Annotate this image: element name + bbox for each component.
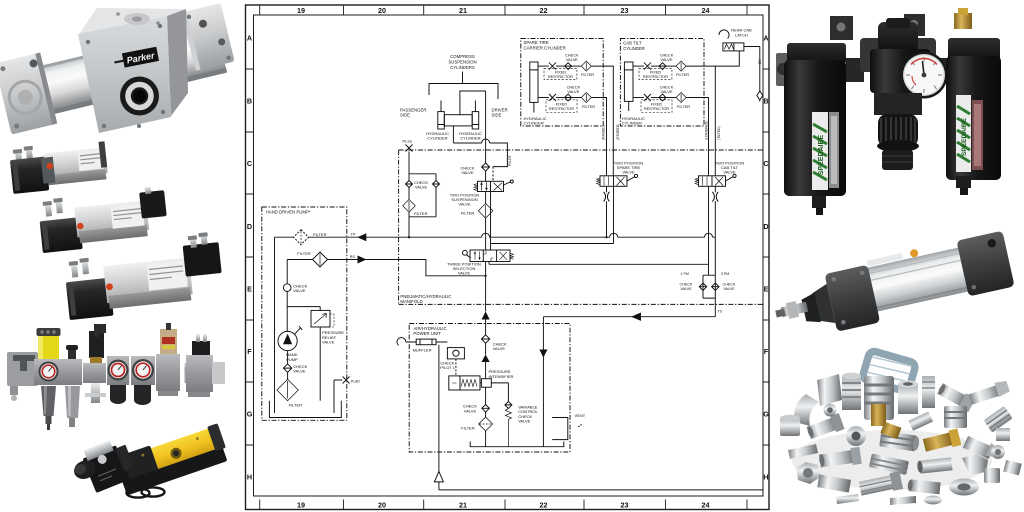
svg-text:COMPRESS: COMPRESS (450, 54, 475, 59)
wire: below spare valve (606, 186, 608, 237)
label TWO POSITION SUSPENSION VALVE (450, 193, 480, 207)
hand pump P1 (278, 326, 302, 350)
wire (556, 97, 565, 99)
svg-text:1 PM: 1 PM (681, 272, 689, 276)
svg-text:19: 19 (297, 501, 305, 510)
svg-text:CHECK: CHECK (680, 283, 693, 287)
svg-text:VALVE: VALVE (464, 408, 477, 413)
svg-text:(RAISED): (RAISED) (602, 125, 606, 140)
supply riser with down arrow (539, 345, 547, 447)
label AIR/HYDRAULIC POWER UNIT (413, 326, 446, 336)
vent port (552, 418, 581, 440)
label FIXED RESTRICTOR (FR2) (549, 102, 574, 112)
wire (485, 320, 487, 335)
svg-text:SPEEDAIRE: SPEEDAIRE (961, 117, 968, 156)
svg-text:VALVE: VALVE (723, 287, 735, 291)
svg-text:POWER UNIT: POWER UNIT (413, 331, 441, 336)
svg-text:24: 24 (702, 501, 710, 510)
svg-text:(LOWERED): (LOWERED) (704, 121, 708, 140)
svg-text:PL2a: PL2a (403, 138, 413, 143)
svg-text:FILTER: FILTER (289, 403, 303, 408)
check valve CV6 (659, 94, 666, 101)
wire: F8 return to tank (275, 237, 294, 413)
label TWO POSITION SPARE TIRE VALVE (614, 161, 644, 175)
filter F2 (403, 188, 416, 217)
check valve CV2b (406, 181, 413, 188)
label PASSENGER SIDE (400, 108, 426, 118)
label FILTER (F8) (313, 232, 327, 237)
plug PL2a (403, 138, 413, 151)
rotated wire label (TILTED) (717, 126, 721, 140)
photo: yellow lockout valve (68, 422, 230, 498)
svg-text:RESTRICTOR: RESTRICTOR (644, 106, 669, 111)
label FILTER (F10) (289, 403, 303, 408)
junction (485, 275, 487, 277)
label CHECK PILOT (440, 360, 456, 370)
hydraulic cylinder CYL2 (driver) (472, 101, 479, 130)
wire: main riser from cylinders (485, 91, 487, 163)
label FIXED RESTRICTOR (FR3) (643, 70, 668, 80)
svg-text:PILOT L: PILOT L (440, 365, 456, 370)
label FIXED RESTRICTOR (FR1) (548, 70, 573, 80)
svg-text:RESTRICTOR: RESTRICTOR (548, 74, 573, 79)
cab tilt cylinder CYL4 (624, 62, 633, 111)
rotated wire label (STORED) (616, 124, 620, 140)
wire: spare bottom branch to drop (591, 98, 606, 176)
pressure intensifier coupler (481, 379, 491, 388)
svg-text:23: 23 (621, 6, 629, 15)
filter F10 (277, 372, 298, 400)
label HYDRAULIC CYLINDER (cab) (622, 116, 645, 126)
fixed restrictor FR1 (544, 63, 577, 80)
svg-text:SUSPENSION: SUSPENSION (448, 60, 476, 65)
fixed restrictor FR3 (639, 63, 672, 80)
svg-text:FILTER: FILTER (297, 251, 311, 256)
quick coupling QC1 (604, 192, 610, 202)
svg-text:CHECK: CHECK (723, 283, 736, 287)
wire: cab valve drop from top branch (714, 66, 716, 176)
svg-text:VALVE: VALVE (567, 89, 579, 94)
label FIXED RESTRICTOR (FR4) (644, 102, 669, 112)
check valve CV3 (565, 63, 572, 70)
photo: solenoid valve 1 (9, 138, 109, 194)
fixed restrictor FR2 (546, 94, 577, 113)
label HAND DRIVEN PUMP (266, 210, 311, 215)
photo: hose fittings pile (780, 350, 1022, 505)
svg-text:VALVE: VALVE (293, 288, 306, 293)
wire: selector valve bottom to bridge (489, 262, 709, 276)
variable control check valve (491, 383, 512, 447)
wire: cab top branch (633, 65, 644, 67)
svg-text:VALVE: VALVE (322, 340, 335, 345)
enclosure: hand driven pump (dash-dot) (262, 207, 347, 420)
svg-text:C: C (763, 159, 768, 168)
label FILTER (F6) (677, 104, 690, 109)
photo: FRL service assembly (7, 323, 225, 430)
svg-text:MANIFOLD: MANIFOLD (400, 299, 422, 304)
label FILTER (F1) (461, 211, 475, 216)
flow arrow (left) on TP header (357, 233, 366, 241)
label DRIVER SIDE (492, 108, 508, 118)
svg-text:VALVE: VALVE (680, 287, 692, 291)
svg-text:G: G (247, 410, 253, 419)
filter F4 (572, 93, 592, 103)
svg-text:G: G (763, 410, 769, 419)
fixed restrictor FR4 (641, 94, 672, 113)
node 3 PM (721, 272, 729, 276)
filter F3 (572, 61, 592, 71)
svg-text:FILTER: FILTER (313, 232, 327, 237)
wire: suspension line to pilot (with jump over main line) (453, 139, 507, 167)
rear cab latch cylinder (719, 28, 752, 51)
wire: spare bottom branch (538, 97, 549, 99)
wire: spare top branch to drop (591, 66, 613, 176)
svg-text:SIDE: SIDE (400, 113, 410, 118)
svg-text:VALVE: VALVE (461, 170, 474, 175)
rotated wire label (LOWERED) (704, 121, 708, 140)
svg-text:E: E (247, 285, 252, 294)
svg-text:(STORED): (STORED) (616, 124, 620, 140)
wire: suspension valve port B down to selector valve (490, 192, 492, 251)
svg-text:RS: RS (350, 255, 356, 259)
svg-text:CAB TILT: CAB TILT (623, 41, 642, 46)
wire: cab top branch to latch riser (686, 51, 739, 66)
svg-text:FILTER: FILTER (582, 104, 595, 109)
svg-text:RESTRICTOR: RESTRICTOR (549, 106, 574, 111)
wire (651, 65, 659, 67)
enclosure: pneumatic/hydraulic manifold (dash-dot) (399, 150, 763, 304)
pilot line (dashed) to suspension valve (492, 167, 494, 181)
wire: PL2a drop (408, 152, 410, 181)
photo: left product column (0, 0, 245, 512)
svg-text:VALVE: VALVE (723, 170, 736, 175)
label MUFFLER (413, 347, 432, 352)
two position suspension valve V1 (474, 180, 513, 192)
label CHECK VALVE (CV11) (293, 364, 307, 374)
wire: cab bottom branch to drop (686, 98, 708, 176)
wire: selector valve to power unit (485, 262, 487, 312)
svg-text:A: A (763, 34, 768, 43)
svg-text:VALVE: VALVE (293, 369, 306, 374)
wire (651, 97, 659, 99)
check valve bridge CV7 (699, 275, 719, 298)
label FILTER (F9) (297, 251, 311, 256)
label COMPRESS SUSPENSION CYLINDERS (448, 54, 476, 70)
check pilot valve (447, 348, 464, 359)
grid tick marks bottom (260, 500, 747, 510)
enclosure: spare tire carrier cylinder (dash-dot) (521, 39, 603, 127)
wire: RS header to selector valve drain (347, 260, 486, 276)
label HAND PUMP (286, 352, 298, 362)
svg-text:CYLINDER: CYLINDER (622, 121, 642, 126)
filter F6 (666, 93, 686, 103)
svg-text:PL8D: PL8D (351, 379, 360, 383)
node RS (350, 255, 356, 259)
flow arrow (right) on RS header (358, 256, 367, 264)
filter F7 (479, 412, 493, 447)
wire: F9 to RS (328, 259, 347, 261)
wire: latch to border connector (744, 47, 760, 92)
filter F1 (478, 204, 493, 219)
check valve CV1 (482, 163, 490, 171)
wire (485, 343, 487, 354)
grid tick marks top (260, 5, 747, 15)
wire: cross link to spare tire valve line (491, 243, 614, 245)
wire: relief branch (287, 307, 320, 311)
label (vertical) near border (758, 60, 762, 64)
node TS (717, 309, 722, 313)
photo: solenoid valve 3 (62, 231, 225, 320)
svg-text:FILTER: FILTER (461, 426, 475, 431)
svg-text:F: F (764, 347, 769, 356)
svg-text:HAND DRIVEN PUMP*: HAND DRIVEN PUMP* (266, 210, 311, 215)
photo: solenoid valve 2 (37, 185, 169, 253)
wire: spare top branch (538, 65, 549, 67)
hydraulic cylinder CYL1 (passenger) (438, 101, 445, 130)
label HYDRAULIC CYLINDER (spare) (524, 116, 547, 126)
photo: Speedaire FRL combo (776, 8, 1001, 215)
wire: CV1 to suspension valve (485, 171, 487, 181)
label CHECK VALVE (CV5) (660, 53, 674, 63)
check valve CV2 (bypass) (433, 174, 440, 188)
label PRESSURE RELIEF VALVE (322, 330, 344, 344)
label CHECK VALVE (CV2) (414, 180, 428, 190)
label CHECK VALVE (CV10) (293, 283, 307, 293)
svg-text:B: B (247, 97, 252, 106)
svg-text:FILTER: FILTER (677, 104, 690, 109)
wire: V1 to filter F1 (485, 192, 487, 204)
svg-text:21: 21 (459, 501, 467, 510)
svg-text:FILTER: FILTER (461, 211, 475, 216)
svg-text:23: 23 (621, 501, 629, 510)
enclosure: cab tilt cylinder (dash-dot) (620, 39, 704, 127)
svg-text:20: 20 (378, 501, 386, 510)
label THREE POSITION SELECTION VALVE (447, 261, 481, 275)
reservoir tank (269, 401, 341, 418)
drain line with breather (434, 345, 763, 490)
crossover bar between cylinders (444, 115, 472, 126)
label FILTER (F2) (414, 211, 428, 216)
check valve CV10 (ball) (283, 284, 291, 292)
svg-text:3 PM: 3 PM (721, 272, 729, 276)
svg-text:F: F (247, 347, 252, 356)
svg-text:VALVE: VALVE (415, 185, 428, 190)
svg-text:E: E (764, 285, 769, 294)
label VARIABLE CONTROL CHECK VALVE (518, 404, 538, 423)
label CHECK VALVE (CV3) (565, 53, 579, 63)
svg-text:D8: D8 (758, 60, 762, 64)
label CHECK VALVE (CV4) (567, 85, 581, 95)
pilot line (dashed) (455, 359, 457, 376)
svg-text:H: H (763, 473, 768, 482)
wire: relief drain to tank (319, 327, 321, 401)
flow arrow (up) into selector valve (482, 312, 490, 320)
wire: pump discharge (286, 291, 288, 331)
muffler M1 (406, 339, 448, 345)
svg-text:VALVE: VALVE (458, 202, 471, 207)
filter F5 (666, 61, 686, 71)
wire: below cab valve left port (708, 186, 710, 264)
photo: right product column (770, 0, 1024, 512)
wire (485, 362, 487, 405)
muffler inlet pigtail (397, 338, 406, 346)
svg-text:A: A (247, 34, 252, 43)
wire (287, 351, 289, 364)
label FILTER (F5) (676, 72, 689, 77)
quick coupling QC2 (712, 186, 718, 237)
grid tick marks right (763, 69, 769, 445)
enclosure: air/hydraulic power unit (dash-dot) (409, 324, 570, 453)
label FILTER (F4) (582, 104, 595, 109)
wire: parallel pair bottom link and drop to TP header (409, 188, 436, 238)
svg-text:VALVE: VALVE (493, 346, 506, 351)
svg-text:FILTER: FILTER (581, 72, 594, 77)
svg-text:CYLINDERS: CYLINDERS (450, 65, 475, 70)
svg-text:D: D (763, 222, 768, 231)
wire: below spare valve right port (613, 186, 615, 243)
svg-text:INTENSIFIER: INTENSIFIER (489, 374, 514, 379)
photo: pneumatic cylinder (769, 230, 1016, 344)
svg-text:24: 24 (702, 6, 710, 15)
svg-text:21: 21 (459, 6, 467, 15)
svg-text:LATCH: LATCH (735, 32, 748, 37)
svg-text:(TILTED): (TILTED) (717, 126, 721, 140)
junction (408, 236, 410, 238)
node TP (351, 233, 356, 237)
flow arrow (up) (482, 355, 490, 363)
two position spare tire valve V2 (597, 174, 638, 186)
label CAB TILT CYLINDER (623, 41, 645, 52)
svg-text:RESTRICTOR: RESTRICTOR (643, 74, 668, 79)
svg-text:SPARE TIRE: SPARE TIRE (524, 40, 549, 45)
wire: bracket feed to cylinder pair (460, 91, 486, 115)
label CHECK VALVE (CV9) (463, 404, 477, 414)
svg-text:CYLINDER: CYLINDER (460, 136, 480, 141)
svg-text:D: D (247, 222, 252, 231)
svg-text:19: 19 (297, 6, 305, 15)
svg-text:20: 20 (378, 6, 386, 15)
wire: cab bottom branch (633, 97, 644, 99)
check valve CV4 (565, 94, 572, 101)
grouping bracket for suspension cylinders (429, 72, 498, 100)
svg-text:VALVE: VALVE (566, 57, 578, 62)
grid tick marks left (246, 69, 254, 445)
label VENT (575, 413, 586, 418)
svg-text:CARRIER CYLINDER: CARRIER CYLINDER (524, 46, 566, 51)
label HYDRAULIC CYLINDER (right) (459, 131, 482, 141)
wire: bar port down (452, 126, 454, 143)
wire: F8 to TP (309, 236, 347, 238)
check valve CV9 (482, 405, 490, 413)
border frame outer (246, 5, 770, 510)
wire: bridge to TS header (714, 298, 716, 317)
label PRESSURE INTENSIFIER (489, 369, 514, 379)
svg-text:22: 22 (540, 501, 548, 510)
label HYDRAULIC CYLINDER (left) (426, 131, 449, 141)
flow arrow (left) on TS header (631, 313, 641, 321)
label FILTER (F7) (461, 426, 475, 431)
svg-text:VALVE: VALVE (661, 89, 673, 94)
three position selection valve V4 (463, 250, 514, 262)
label CHECK VALVE (bridge left) (680, 283, 693, 292)
svg-text:SPEEDAIRE: SPEEDAIRE (818, 134, 825, 175)
border frame inner drawing area (254, 15, 764, 496)
hand pump filter F8 (dashed) (294, 230, 309, 245)
wire (556, 65, 565, 67)
svg-text:MUFFLER: MUFFLER (413, 347, 432, 352)
svg-text:22: 22 (540, 6, 548, 15)
label CHECK VALVE (bridge right) (723, 283, 736, 292)
svg-text:SIDE: SIDE (492, 113, 502, 118)
label SPARE TIRE CARRIER CYLINDER (524, 40, 566, 51)
svg-text:H: H (247, 473, 252, 482)
svg-text:VALVE: VALVE (661, 57, 673, 62)
svg-text:FILTER: FILTER (676, 72, 689, 77)
wire: TS header to power unit (543, 317, 715, 345)
svg-text:VENT: VENT (575, 413, 586, 418)
svg-text:TS: TS (717, 309, 722, 313)
svg-text:FILTER: FILTER (414, 211, 428, 216)
check valve CV8 (481, 335, 489, 343)
svg-text:C: C (247, 159, 252, 168)
label PILOT (rotated) (508, 154, 512, 166)
pressure relief valve RV1 (311, 310, 334, 327)
junction (605, 236, 607, 238)
check valve CV11 (283, 364, 291, 372)
svg-text:VALVE: VALVE (458, 270, 471, 275)
photo: Parker rotary actuator (0, 3, 239, 134)
node 1 PM (681, 272, 689, 276)
label FILTER (F3) (581, 72, 594, 77)
rotated wire label (RAISE) (602, 125, 606, 140)
wire: parallel check/filter top link (409, 173, 436, 175)
label CHECK VALVE (CV1) (460, 166, 474, 176)
hand pump filter F9 (313, 252, 328, 267)
wire: F1 down across TP header to selector valve (485, 218, 487, 250)
connector arrow at border (row B) (757, 91, 763, 102)
plug PL8D (334, 377, 360, 414)
wire: TP header (with jump-overs) (347, 233, 716, 275)
label CHECK VALVE (CV8) (493, 341, 507, 351)
wire: F9 to pump discharge (287, 260, 312, 284)
air motor / pump (449, 376, 482, 390)
label PNEUMATIC/HYDRAULIC MANIFOLD (400, 294, 451, 304)
label TWO POSITION CAB TILT VALVE (715, 161, 745, 175)
check valve CV5 (659, 63, 666, 70)
svg-text:TP: TP (351, 233, 356, 237)
label CHECK VALVE (CV6) (660, 85, 674, 95)
svg-text:B: B (763, 97, 768, 106)
two position cab tilt valve V3 (695, 174, 736, 186)
svg-text:VALVE: VALVE (518, 419, 531, 424)
svg-text:CYLINDER: CYLINDER (524, 121, 544, 126)
svg-text:VALVE: VALVE (622, 170, 635, 175)
svg-text:CYLINDER: CYLINDER (427, 136, 447, 141)
spare tire cylinder CYL3 (530, 62, 538, 113)
reservoir collector rail (470, 442, 564, 447)
svg-text:CYLINDER: CYLINDER (623, 46, 645, 51)
svg-text:PILOT: PILOT (508, 154, 512, 166)
